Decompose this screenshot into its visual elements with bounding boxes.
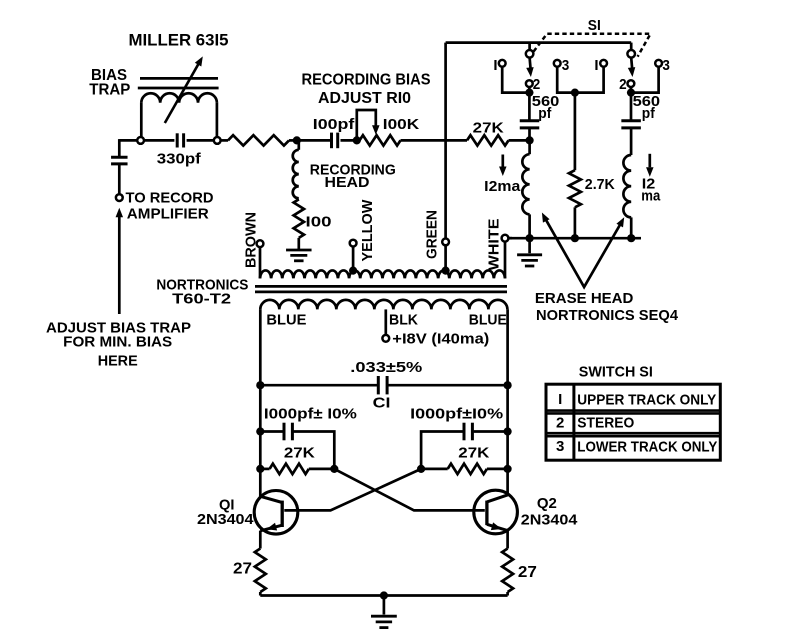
current arrow 12ma right [648,154,651,168]
node GREEN terminal [442,239,449,246]
wire C1 row right [388,384,507,387]
table switch S1 outer box [546,384,720,460]
switch S1a pole [526,50,534,58]
node +18V terminal [382,335,389,342]
wire C1 row left [260,384,377,387]
transistor Q1 body circle [254,491,298,535]
wire erase coil to bottom bus [528,214,531,238]
capacitor 560pf left [520,119,540,122]
node junction left rail / C1 [256,381,264,389]
capacitor 100pf [330,133,333,149]
wire Q1 emitter to resistor [259,531,262,549]
node junction green tap on winding [442,267,450,275]
svg-text:ma: ma [641,188,661,205]
node erase-left junction [526,136,534,144]
wire left 27K leads [260,468,269,471]
switch S1b arm arrow [630,58,634,68]
wire stub to pole B [630,43,633,51]
svg-text:3: 3 [662,57,670,74]
svg-text:LOWER TRACK ONLY: LOWER TRACK ONLY [577,439,717,456]
svg-text:GREEN: GREEN [423,210,440,259]
svg-text:WHITE: WHITE [486,219,503,271]
svg-text:27K: 27K [284,444,315,461]
svg-text:BLK: BLK [389,311,418,328]
wire bottom ground stub [383,596,386,615]
wire left 1000pf lead [260,430,283,433]
wire 100 resistor to ground [297,238,300,250]
svg-text:SWITCH SI: SWITCH SI [579,364,653,381]
transistor Q2 emitter [487,524,508,530]
wire 560pf to erase node [528,128,531,140]
resistor 27K left base [270,464,309,474]
potentiometer R10 wiper [357,110,376,140]
wire trap left terminal to 330pf [144,139,175,142]
svg-text:2N3404: 2N3404 [521,512,578,529]
wire contact 1b to 2.7K node [578,67,604,93]
svg-text:SI: SI [588,17,601,34]
wire trap to series resistor [221,139,228,142]
switch S1a contact 1 [499,60,506,67]
switch S1b contact 1 [600,60,607,67]
wire stub to pole A [528,43,531,51]
wire right coil to bottom bus [630,217,633,238]
svg-text:3: 3 [556,438,564,455]
svg-text:27K: 27K [458,444,489,461]
potentiometer R10 100K body [360,135,401,145]
wire white terminal to erase bus [508,237,512,240]
wire 2.7K top lead [574,93,577,171]
wire cross-couple to Q2 base [334,469,485,511]
node junction erase-right bottom [627,234,635,242]
node junction bottom center [380,591,388,599]
switch S1a arm arrow [528,58,532,68]
svg-text:27: 27 [233,561,252,578]
switch S1 gang dashed link [534,34,651,57]
capacitor 1000pf left [283,423,286,441]
transformer T1 core line lower [255,291,507,294]
adjustment arrow through bias trap [165,62,200,123]
svg-text:2.7K: 2.7K [585,176,615,193]
svg-text:Q2: Q2 [537,495,557,512]
wire contact2a to junction [528,87,531,93]
svg-text:I: I [493,57,497,74]
svg-text:+I8V (I40ma): +I8V (I40ma) [392,331,489,348]
svg-text:.033±5%: .033±5% [350,359,422,376]
resistor 27 left [255,549,266,593]
wire Q1 resistor to bottom bus [259,592,262,596]
wire erase node to coil [528,140,531,154]
svg-text:27K: 27K [473,120,504,137]
svg-text:2: 2 [533,76,541,93]
wire S1b common to 560pf right [630,93,633,121]
svg-text:2: 2 [556,414,564,431]
transformer T1 primary winding [259,247,262,278]
wire left drop to coupling cap [118,139,121,157]
svg-text:I00: I00 [306,214,332,231]
transistor Q1 base bar [281,501,284,527]
switch S1b contact 2 [628,80,635,87]
capacitor 1000pf right [463,423,466,441]
svg-text:2N3404: 2N3404 [197,511,254,528]
wire right 27K leads [421,468,448,471]
svg-text:2: 2 [619,76,627,93]
switch S1a contact 3 [554,60,561,67]
wire green terminal to winding tap [444,245,447,270]
node junction left rail / 1000pf [256,427,264,435]
svg-text:NORTRONICS SEQ4: NORTRONICS SEQ4 [536,307,679,324]
node WHITE terminal [502,235,509,242]
transistor Q2 body circle [474,490,518,534]
wire 27K to erase node [509,139,530,142]
wire contact 3b to common [634,67,659,93]
node junction right rail / 1000pf [504,427,512,435]
node pot left junction [353,136,361,144]
inductor L1 bias trap core line upper [140,77,218,80]
node bias trap left terminal [137,137,144,144]
svg-text:MILLER 63I5: MILLER 63I5 [129,30,229,49]
inductor recording head [293,150,299,199]
wire 560pf right to coil [630,128,633,155]
wire 2.7K bottom lead [574,207,577,238]
wire 330pf to trap right terminal [187,139,214,142]
svg-text:CI: CI [373,395,391,412]
inductor erase head right winding [623,155,631,217]
node YELLOW terminal [350,240,357,247]
node junction right rail / 27K [504,465,512,473]
node junction S1a common [525,89,533,97]
svg-text:BROWN: BROWN [243,212,260,268]
wire node to recording head coil [297,140,300,149]
svg-text:HEAD: HEAD [325,174,370,191]
pointer arrow to record-amplifier node [118,217,121,315]
switch S1a contact 2 [526,80,533,87]
node junction S1b common [627,89,635,97]
node junction 2.7K bottom [571,234,579,242]
wire series resistor to node [289,139,298,142]
svg-text:ERASE HEAD: ERASE HEAD [535,290,634,307]
svg-text:I: I [558,391,562,408]
svg-text:I2ma.: I2ma. [484,178,525,195]
node junction right cross [417,465,425,473]
resistor 27K (to erase head) [467,135,509,145]
svg-text:AMPLIFIER: AMPLIFIER [127,205,209,222]
ground below 100 resistor [286,249,312,252]
current arrow 12ma left [501,155,504,167]
wire 100pf to pot node [341,139,359,142]
resistor 27K right base [448,464,487,474]
wire contact 1a to common [502,67,526,93]
capacitor C1 .033 [377,376,380,394]
svg-text:I00pf: I00pf [313,116,356,133]
resistor 2.7K [569,170,581,207]
ground at erase bus [517,253,542,256]
wire contact2b to junction [630,87,633,93]
wire right 1000pf to corner [421,432,463,467]
wire yellow tap [352,247,355,271]
transformer T1 core line upper [255,285,507,288]
svg-text:RECORDING BIAS: RECORDING BIAS [302,72,431,89]
transistor Q1 emitter [260,525,282,531]
pointer arrows to erase windings [546,220,622,287]
svg-text:I00K: I00K [383,116,420,133]
svg-text:YELLOW: YELLOW [359,199,376,262]
node junction yellow tap [349,267,357,275]
table row separator 1 [546,409,720,412]
svg-text:TRAP: TRAP [89,81,130,98]
svg-text:BLUE: BLUE [266,311,306,328]
node junction erase-left bottom [526,234,534,242]
svg-text:BLUE: BLUE [469,311,507,328]
wire green line vertical [444,43,447,239]
wire contact 3a to 2.7K node [557,67,572,93]
wire right rail upper [506,309,509,495]
wire BLK center tap [384,309,387,335]
svg-text:pf: pf [538,105,552,122]
wire main bus left segment [119,139,137,142]
wire top feed (node to switch poles) [446,41,632,44]
wire oscillator bottom bus [260,594,507,597]
inductor L1 bias trap winding [140,103,143,138]
capacitor coupling (to record amplifier) [111,156,128,159]
inductor L1 bias trap core line lower [138,87,219,90]
wire pot to 27K resistor [401,139,468,142]
wire cross-couple to Q1 base [284,469,421,511]
node junction right rail / C1 [504,381,512,389]
svg-text:TO RECORD: TO RECORD [126,190,214,207]
node junction left cross [330,465,338,473]
svg-text:I000pf±I0%: I000pf±I0% [410,405,503,422]
node TO RECORD AMPLIFIER terminal [116,194,123,201]
svg-text:STEREO: STEREO [577,415,634,432]
svg-text:T60-T2: T60-T2 [172,291,231,308]
switch S1b contact 3 [655,60,662,67]
svg-text:I000pf± I0%: I000pf± I0% [264,405,357,422]
svg-text:3: 3 [562,57,570,74]
wire erase ground stub [528,238,531,253]
wire coupling cap to terminal [118,164,121,195]
node junction recording-head [293,136,301,144]
resistor 100 [294,199,304,238]
node junction 2.7K top [571,89,579,97]
wire left 1000pf to corner [294,432,335,467]
svg-text:I: I [594,57,598,74]
svg-text:330pf: 330pf [157,151,202,168]
svg-text:FOR MIN. BIAS: FOR MIN. BIAS [63,334,172,351]
svg-text:pf: pf [642,105,656,122]
wire left rail upper [259,309,262,496]
resistor 27 right [502,549,513,593]
wire S1a common to 560pf [528,93,531,121]
wire Q2 emitter to resistor [506,530,509,548]
node BROWN terminal [257,240,264,247]
capacitor 330pf [176,133,179,147]
resistor (series, unlabeled) [228,135,289,145]
svg-text:HERE: HERE [98,353,138,370]
node bias trap right terminal [214,137,221,144]
transformer T1 secondary winding [260,300,507,310]
transistor Q2 base bar [485,501,488,525]
transistor Q1 collector [260,496,282,502]
svg-text:UPPER TRACK ONLY: UPPER TRACK ONLY [577,391,716,408]
table row separator 2 [546,432,720,435]
svg-text:27: 27 [518,564,537,581]
wire erase bottom bus [508,237,641,240]
transistor Q2 collector [487,495,508,502]
table divider vertical [572,384,575,460]
node junction left rail / 27K [256,465,264,473]
svg-text:ADJUST RI0: ADJUST RI0 [318,90,411,107]
switch S1b pole [627,50,635,58]
ground main [371,615,397,618]
inductor erase head left winding [522,154,529,214]
wire node to 100pf [297,139,330,142]
capacitor 560pf right [621,119,641,122]
wire right 1000pf lead [474,430,508,433]
wire Q2 resistor to bottom bus [506,592,509,596]
